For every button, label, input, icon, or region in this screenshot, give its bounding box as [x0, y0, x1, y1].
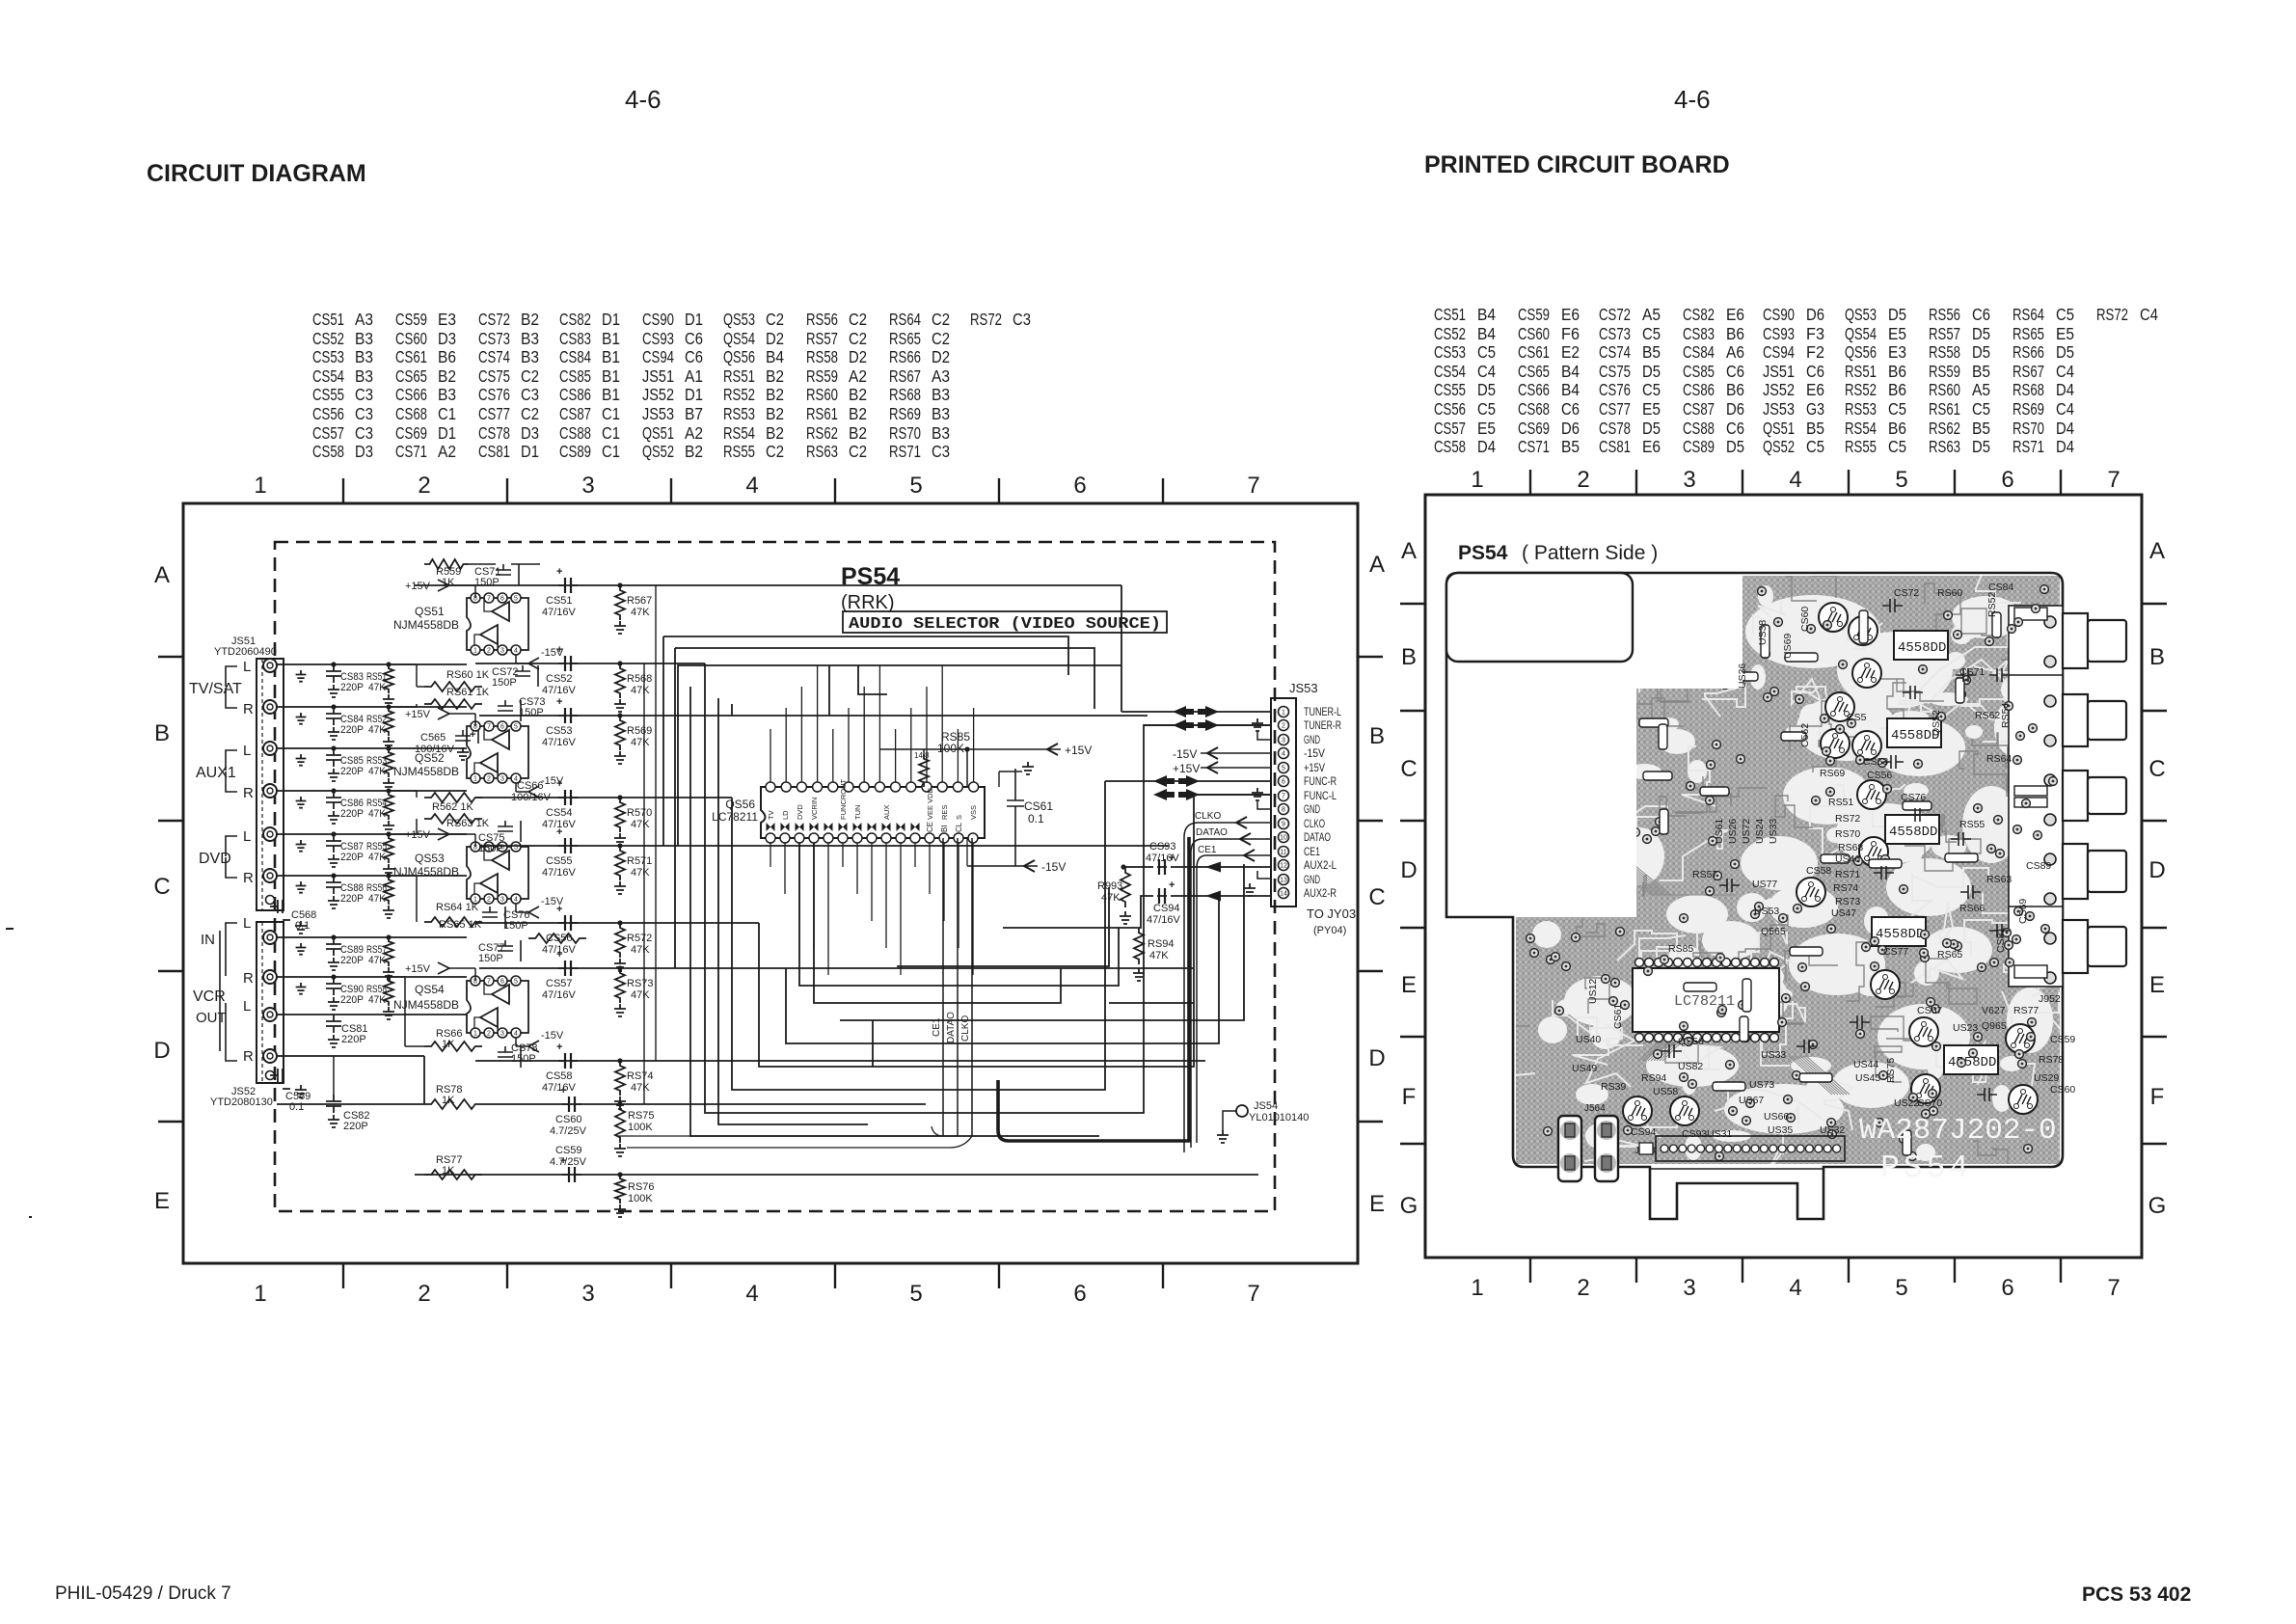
- source label AUX1: [196, 743, 254, 801]
- svg-text:US72: US72: [1741, 819, 1752, 844]
- svg-text:CIRCUIT DIAGRAM: CIRCUIT DIAGRAM: [147, 160, 366, 187]
- svg-text:CS74: CS74: [478, 347, 510, 366]
- svg-text:5: 5: [1282, 766, 1285, 772]
- svg-text:CS69: CS69: [395, 423, 427, 443]
- wire bus loop 2: [732, 704, 1105, 1090]
- svg-text:B6: B6: [1726, 380, 1744, 399]
- svg-text:CS66: CS66: [395, 385, 427, 404]
- ground input CS86: [296, 797, 307, 808]
- svg-text:1: 1: [1471, 1275, 1483, 1301]
- PCB edge tab inner: [1650, 1168, 1823, 1170]
- svg-text:QS56: QS56: [1678, 1036, 1704, 1047]
- svg-text:2: 2: [487, 897, 491, 904]
- svg-text:+: +: [1169, 853, 1175, 864]
- ground input CS88: [296, 881, 307, 893]
- svg-text:RS61: RS61: [1929, 399, 1960, 419]
- svg-text:TUNER-R: TUNER-R: [1304, 718, 1341, 732]
- svg-text:B5: B5: [1972, 419, 1990, 438]
- svg-text:6: 6: [1282, 779, 1285, 786]
- svg-text:C3: C3: [355, 404, 373, 423]
- svg-text:L: L: [243, 743, 251, 759]
- svg-text:10: 10: [1280, 835, 1287, 842]
- svg-text:RS52: RS52: [1845, 380, 1877, 399]
- svg-text:RS85: RS85: [1668, 943, 1693, 955]
- component location table (circuit diagram): [312, 310, 1031, 461]
- svg-text:1: 1: [254, 1281, 266, 1307]
- svg-text:220P: 220P: [340, 955, 364, 966]
- svg-text:DATAO: DATAO: [1304, 830, 1331, 844]
- svg-text:B2: B2: [766, 423, 784, 443]
- svg-text:AUDIO SELECTOR (VIDEO SOURCE): AUDIO SELECTOR (VIDEO SOURCE): [849, 615, 1161, 634]
- svg-text:LD: LD: [781, 810, 790, 820]
- svg-text:CS56: CS56: [312, 404, 344, 423]
- svg-text:C5: C5: [1806, 437, 1824, 456]
- svg-text:L: L: [243, 915, 251, 932]
- svg-text:DATAO: DATAO: [946, 1012, 957, 1043]
- svg-text:CS53: CS53: [546, 725, 573, 737]
- svg-text:47K: 47K: [368, 852, 387, 863]
- svg-text:B3: B3: [932, 423, 950, 443]
- svg-text:7: 7: [1247, 473, 1259, 499]
- svg-text:CS94: CS94: [642, 347, 674, 366]
- svg-text:RS65: RS65: [889, 329, 921, 348]
- connector JS53: [1271, 681, 1318, 907]
- svg-text:220P: 220P: [340, 808, 364, 820]
- connector JS51 YTD2060490: [214, 636, 284, 910]
- svg-text:CS65: CS65: [1518, 362, 1550, 381]
- svg-text:R567: R567: [627, 595, 652, 607]
- svg-text:US35: US35: [1768, 1124, 1793, 1136]
- svg-text:US23: US23: [1953, 1022, 1978, 1034]
- svg-text:PHIL-05429 / Druck 7: PHIL-05429 / Druck 7: [55, 1583, 231, 1604]
- svg-text:D5: D5: [1642, 362, 1661, 381]
- svg-text:RS64: RS64: [889, 310, 921, 329]
- RCA connector 1: [2063, 613, 2126, 668]
- svg-text:C6: C6: [1726, 362, 1744, 381]
- svg-text:RS53: RS53: [1845, 399, 1877, 419]
- svg-text:0.1: 0.1: [289, 1101, 304, 1113]
- svg-text:B5: B5: [1972, 362, 1990, 381]
- svg-text:JS52: JS52: [642, 385, 674, 404]
- wire bus loop 12: [799, 838, 1119, 986]
- resistor RS73 47K: [614, 968, 654, 1016]
- svg-text:CS56: CS56: [546, 933, 573, 944]
- svg-text:D1: D1: [521, 442, 539, 461]
- svg-text:+: +: [556, 566, 562, 578]
- svg-text:47K: 47K: [1149, 950, 1169, 961]
- PCB transistor 6: [1852, 731, 1881, 760]
- svg-text:RS59: RS59: [806, 366, 838, 386]
- svg-text:47K: 47K: [368, 682, 387, 693]
- svg-text:CS84: CS84: [1683, 342, 1715, 362]
- wire input line CS84: [277, 704, 467, 709]
- power +15V arrow QS52: [405, 708, 475, 726]
- svg-text:RS59: RS59: [1929, 362, 1960, 381]
- svg-text:AUX2-L: AUX2-L: [1304, 858, 1337, 872]
- svg-text:5: 5: [909, 473, 922, 499]
- svg-text:6: 6: [500, 724, 504, 731]
- svg-text:47/16V: 47/16V: [542, 685, 577, 696]
- svg-text:CS70: CS70: [1917, 1097, 1942, 1109]
- svg-text:D3: D3: [355, 442, 373, 461]
- svg-text:WA287J202-0: WA287J202-0: [1859, 1114, 2057, 1148]
- svg-text:R570: R570: [627, 807, 652, 819]
- svg-text:CS53: CS53: [1863, 756, 1888, 768]
- wire bus loop 13: [829, 665, 887, 1067]
- svg-text:DATAO: DATAO: [1196, 827, 1228, 838]
- svg-text:B3: B3: [521, 329, 539, 348]
- RCA connector 3: [2063, 771, 2126, 821]
- svg-text:B4: B4: [1477, 324, 1496, 343]
- capacitor CS75 150P: [478, 821, 521, 854]
- svg-text:JS54: JS54: [1254, 1100, 1278, 1112]
- svg-text:CS61: CS61: [1612, 1004, 1624, 1029]
- capacitor CS51 47/16V: [542, 566, 578, 618]
- resistor RS74 47K: [614, 1061, 654, 1109]
- svg-text:CS69: CS69: [1518, 419, 1550, 438]
- svg-text:CS71: CS71: [395, 442, 427, 461]
- svg-text:D1: D1: [685, 385, 703, 404]
- PCB capacitor symbols: [1661, 599, 2010, 1101]
- svg-text:220P: 220P: [340, 852, 364, 863]
- svg-text:CS78: CS78: [478, 423, 510, 443]
- svg-text:B3: B3: [932, 385, 950, 404]
- svg-text:GND: GND: [1304, 802, 1320, 816]
- svg-text:RS75: RS75: [1885, 1058, 1897, 1083]
- svg-text:DVD: DVD: [796, 804, 804, 820]
- svg-text:0.1: 0.1: [1028, 812, 1044, 826]
- svg-text:CS55: CS55: [1434, 380, 1466, 399]
- resistor R993 47K: [1097, 867, 1131, 924]
- wire input line CS85: [277, 745, 467, 750]
- svg-text:E: E: [2149, 972, 2165, 998]
- svg-text:CS68: CS68: [395, 404, 427, 423]
- svg-text:B3: B3: [355, 329, 373, 348]
- wire bus loop 9: [840, 864, 1244, 1020]
- svg-text:A: A: [2149, 538, 2165, 564]
- svg-text:JS52: JS52: [1763, 380, 1795, 399]
- svg-text:11: 11: [1280, 850, 1286, 856]
- ground JS53 pin13: [1244, 871, 1271, 896]
- svg-text:B6: B6: [1888, 419, 1906, 438]
- svg-text:47K: 47K: [368, 724, 387, 736]
- svg-text:CS75: CS75: [1599, 362, 1631, 381]
- svg-text:RS70: RS70: [1835, 828, 1860, 840]
- svg-text:6: 6: [500, 596, 504, 603]
- svg-text:RS65: RS65: [1937, 949, 1962, 961]
- svg-text:J952: J952: [2039, 993, 2061, 1005]
- svg-text:C2: C2: [932, 329, 950, 348]
- capacitor CS59 4.7/25V: [550, 1145, 587, 1182]
- svg-text:B4: B4: [1561, 362, 1580, 381]
- svg-text:A2: A2: [685, 423, 703, 443]
- wire signal line CS52: [475, 661, 705, 665]
- svg-text:R569: R569: [627, 725, 652, 737]
- svg-text:E: E: [1369, 1191, 1385, 1217]
- svg-text:RS69: RS69: [1820, 768, 1845, 779]
- svg-text:B2: B2: [766, 385, 784, 404]
- capacitor CS85 220P: [326, 748, 364, 781]
- svg-text:RS57: RS57: [1929, 324, 1960, 343]
- capacitor CS90 220P: [326, 977, 364, 1010]
- svg-text:C2: C2: [766, 310, 784, 329]
- wire signal line CS53: [479, 713, 1148, 717]
- svg-text:RS54: RS54: [723, 423, 755, 443]
- power -15V arrow CS61: [967, 838, 1066, 874]
- svg-text:CS82: CS82: [559, 310, 591, 329]
- svg-text:CS77: CS77: [478, 404, 510, 423]
- svg-text:CS5: CS5: [1847, 712, 1867, 723]
- svg-text:CE: CE: [926, 822, 934, 832]
- svg-text:+: +: [556, 778, 562, 790]
- svg-text:4.7/25V: 4.7/25V: [550, 1125, 587, 1137]
- capacitor CS77 150P: [478, 940, 521, 964]
- svg-text:CS69: CS69: [2017, 899, 2029, 924]
- AUDIO SELECTOR label box: [843, 611, 1167, 634]
- svg-text:5: 5: [514, 724, 518, 731]
- svg-text:B2: B2: [766, 404, 784, 423]
- svg-text:B4: B4: [1477, 305, 1496, 324]
- resistor R559 1K: [424, 559, 469, 588]
- resistor RS65 1K: [439, 919, 586, 943]
- resistor RS94 47K: [1133, 928, 1175, 981]
- svg-text:CS93: CS93: [1149, 841, 1176, 853]
- PCB title PS54 (Pattern Side): [1458, 542, 1658, 564]
- footer left: [55, 1583, 231, 1604]
- wire input line CS83: [277, 662, 467, 666]
- svg-text:B6: B6: [1888, 380, 1906, 399]
- svg-text:RS64 1K: RS64 1K: [436, 902, 479, 913]
- wire CE1 vertical: [932, 838, 943, 1136]
- ground IC QS56: [999, 762, 1034, 787]
- svg-text:JS51: JS51: [642, 366, 674, 386]
- svg-text:CS72: CS72: [1599, 305, 1631, 324]
- svg-text:150P: 150P: [478, 843, 503, 854]
- svg-text:1: 1: [473, 648, 477, 655]
- svg-text:D4: D4: [2056, 419, 2074, 438]
- svg-text:4558DD: 4558DD: [1876, 927, 1924, 942]
- svg-text:2: 2: [1577, 1275, 1589, 1301]
- svg-text:RS62: RS62: [1929, 419, 1960, 438]
- svg-text:CS76: CS76: [1901, 792, 1926, 803]
- svg-text:CS67: CS67: [1917, 1005, 1942, 1016]
- svg-text:GND: GND: [1304, 733, 1320, 746]
- svg-text:C562: C562: [1799, 723, 1811, 747]
- svg-text:D1: D1: [685, 310, 703, 329]
- svg-text:B6: B6: [1726, 324, 1744, 343]
- svg-text:+: +: [556, 696, 562, 708]
- svg-text:RS74: RS74: [627, 1070, 654, 1082]
- svg-text:US69: US69: [1782, 634, 1794, 659]
- svg-text:(PY04): (PY04): [1313, 925, 1346, 936]
- svg-text:2: 2: [487, 1031, 491, 1038]
- svg-text:C5: C5: [1972, 399, 1990, 419]
- svg-text:RS61 1K: RS61 1K: [446, 687, 490, 698]
- svg-text:E5: E5: [2056, 324, 2074, 343]
- ground input CS85: [296, 754, 307, 766]
- svg-text:D5: D5: [1972, 437, 1990, 456]
- capacitor CS53 47/16V: [542, 696, 578, 748]
- svg-text:CS55: CS55: [546, 855, 573, 867]
- svg-text:R: R: [243, 870, 254, 886]
- svg-text:A3: A3: [932, 366, 950, 386]
- svg-text:RS68: RS68: [889, 385, 921, 404]
- svg-text:G3: G3: [1806, 399, 1824, 419]
- svg-text:AUX: AUX: [882, 805, 891, 820]
- svg-text:E6: E6: [1642, 437, 1661, 456]
- svg-text:3: 3: [500, 897, 504, 904]
- svg-text:RS94: RS94: [1641, 1072, 1666, 1084]
- op-amp QS53 NJM4558DB: [393, 842, 528, 904]
- PCB transistor 16: [2009, 1085, 2038, 1114]
- svg-text:CS52: CS52: [1434, 324, 1466, 343]
- svg-text:CS53: CS53: [312, 347, 344, 366]
- svg-text:1: 1: [1282, 710, 1285, 717]
- svg-text:Q565: Q565: [1761, 926, 1786, 937]
- svg-text:CS66: CS66: [1518, 380, 1550, 399]
- svg-text:RS67: RS67: [889, 366, 921, 386]
- svg-text:RS65: RS65: [2012, 324, 2044, 343]
- svg-text:100K: 100K: [937, 742, 964, 755]
- svg-text:NJM4558DB: NJM4558DB: [393, 765, 459, 778]
- PCB transistor 8: [1859, 837, 1888, 866]
- svg-text:CS84: CS84: [1988, 582, 2013, 593]
- svg-text:B1: B1: [602, 329, 620, 348]
- svg-text:1: 1: [254, 473, 266, 499]
- schematic grid column numbers bottom: [254, 1281, 1259, 1307]
- svg-text:NJM4558DB: NJM4558DB: [393, 618, 459, 632]
- svg-text:B6: B6: [438, 347, 456, 366]
- svg-text:220P: 220P: [340, 766, 364, 777]
- PCB grid column numbers top: [1471, 467, 2120, 493]
- svg-text:CS76: CS76: [478, 385, 510, 404]
- PCB IC 4558DD #1: [1894, 631, 1948, 660]
- capacitor C565 100/16V: [415, 729, 478, 760]
- svg-text:220P: 220P: [341, 1034, 366, 1045]
- wire input line CS89: [277, 934, 467, 939]
- svg-text:RS73: RS73: [1835, 896, 1860, 907]
- svg-text:RS71: RS71: [889, 442, 921, 461]
- svg-text:1: 1: [473, 776, 477, 783]
- svg-text:E3: E3: [1888, 342, 1906, 362]
- svg-text:C5: C5: [1888, 399, 1906, 419]
- resistor R568 47K: [614, 663, 652, 712]
- PCB component labels: [1572, 582, 2075, 1140]
- svg-text:S: S: [955, 815, 963, 820]
- svg-text:B4: B4: [1561, 380, 1580, 399]
- resistor R567 47K: [614, 585, 652, 634]
- PCB solder pads: [1521, 582, 2058, 1161]
- svg-text:RS69: RS69: [2012, 399, 2044, 419]
- wire input line CS90: [277, 974, 467, 979]
- svg-text:D: D: [153, 1038, 170, 1064]
- svg-text:C2: C2: [849, 442, 867, 461]
- svg-text:CS86: CS86: [559, 385, 591, 404]
- svg-text:13: 13: [1280, 878, 1287, 884]
- source label DVD: [199, 828, 254, 886]
- PCB transistor 3: [1852, 659, 1881, 688]
- svg-text:C6: C6: [1806, 362, 1824, 381]
- svg-text:QS53: QS53: [415, 852, 445, 865]
- capacitor CS88 220P: [326, 876, 364, 908]
- wire signal line CS54: [475, 795, 732, 799]
- resistor RS52 47K: [366, 707, 394, 749]
- PCB transistor 13: [1623, 1096, 1652, 1125]
- svg-text:+: +: [556, 949, 562, 961]
- svg-text:3: 3: [500, 776, 504, 783]
- ground input CS83: [296, 670, 307, 682]
- svg-text:RS60 1K: RS60 1K: [446, 669, 490, 681]
- svg-text:A2: A2: [849, 366, 867, 386]
- schematic grid column numbers top: [254, 473, 1259, 499]
- svg-text:JS51: JS51: [1763, 362, 1795, 381]
- svg-text:47/16V: 47/16V: [542, 607, 577, 618]
- svg-text:QS53: QS53: [1845, 305, 1877, 324]
- resistor RS54 47K: [366, 791, 394, 833]
- connector JS53 pin labels: [1304, 705, 1341, 900]
- svg-text:150P: 150P: [511, 1053, 536, 1065]
- wire bus loop 15: [644, 585, 656, 1104]
- PCB transistor 1: [1819, 603, 1848, 632]
- svg-text:5: 5: [514, 596, 518, 603]
- svg-text:US33: US33: [1761, 1049, 1786, 1061]
- svg-text:6: 6: [500, 979, 504, 986]
- svg-text:D5: D5: [1477, 380, 1496, 399]
- svg-text:CS52: CS52: [312, 329, 344, 348]
- svg-text:47/16V: 47/16V: [542, 737, 577, 748]
- svg-text:US12: US12: [1587, 979, 1599, 1004]
- svg-text:JS53: JS53: [642, 404, 674, 423]
- svg-text:B2: B2: [438, 366, 456, 386]
- capacitor CS72 150P: [492, 665, 538, 689]
- ground input CS89: [296, 943, 307, 955]
- svg-text:CS54: CS54: [312, 366, 344, 386]
- capacitor CS83 220P: [326, 664, 364, 697]
- svg-text:C6: C6: [1561, 399, 1580, 419]
- svg-text:RES: RES: [940, 805, 949, 820]
- svg-text:C2: C2: [521, 404, 539, 423]
- svg-text:CS73: CS73: [478, 329, 510, 348]
- svg-text:47K: 47K: [368, 808, 387, 820]
- svg-text:C: C: [153, 874, 170, 900]
- svg-text:CL: CL: [955, 822, 963, 832]
- PCB figure border frame: [1400, 470, 2167, 1283]
- svg-text:B: B: [1401, 644, 1417, 670]
- svg-text:R: R: [243, 701, 254, 717]
- op-amp QS54 NJM4558DB: [393, 976, 528, 1038]
- svg-text:L: L: [243, 998, 251, 1015]
- svg-text:YTD2080130: YTD2080130: [210, 1096, 273, 1108]
- svg-text:LC78211: LC78211: [712, 810, 758, 824]
- RCA connector 2: [2063, 694, 2126, 746]
- svg-text:C3: C3: [355, 385, 373, 404]
- svg-text:RS72: RS72: [1835, 813, 1860, 825]
- svg-text:E3: E3: [438, 310, 456, 329]
- wire signal line CS55: [479, 843, 1169, 848]
- svg-text:C4: C4: [1477, 362, 1496, 381]
- svg-text:C3: C3: [355, 423, 373, 443]
- svg-text:220P: 220P: [340, 724, 364, 736]
- svg-text:E6: E6: [1561, 305, 1580, 324]
- svg-text:B7: B7: [685, 404, 703, 423]
- svg-text:RS60: RS60: [1937, 587, 1962, 599]
- svg-text:C6: C6: [1726, 419, 1744, 438]
- svg-text:47/16V: 47/16V: [542, 989, 577, 1001]
- svg-text:RS57: RS57: [806, 329, 838, 348]
- PCB stencil WA287J202-0: [1859, 1114, 2057, 1148]
- svg-text:4-6: 4-6: [1674, 85, 1711, 114]
- svg-text:CS83: CS83: [1683, 324, 1715, 343]
